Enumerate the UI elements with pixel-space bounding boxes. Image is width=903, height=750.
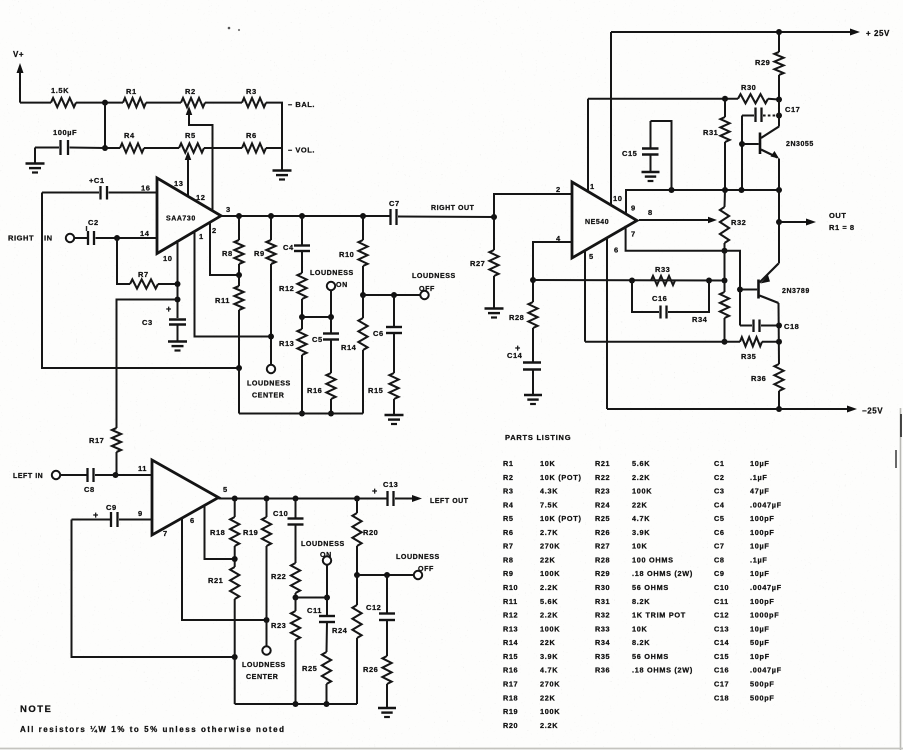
svg-text:R10: R10 — [339, 250, 354, 259]
capacitor C13 — [372, 480, 398, 506]
wire BAL row — [76, 102, 123, 104]
svg-text:R28: R28 — [509, 313, 524, 322]
svg-text:R34: R34 — [692, 315, 708, 324]
wire pin 10 vertical — [175, 240, 181, 318]
svg-text:.1µF: .1µF — [750, 473, 768, 482]
transistor Q1 2N3055 — [742, 127, 814, 159]
svg-text:C6: C6 — [714, 528, 725, 537]
svg-text:R15: R15 — [368, 386, 383, 395]
capacitor C7 — [389, 199, 494, 225]
svg-text:R18: R18 — [503, 693, 518, 702]
ground below BAL/VOL — [273, 171, 292, 180]
resistor R8 — [222, 216, 244, 278]
resistor R22 — [271, 525, 300, 601]
svg-text:R12: R12 — [279, 284, 294, 293]
svg-text:100µF: 100µF — [53, 128, 77, 137]
capacitor C2 — [74, 218, 157, 245]
svg-text:R23: R23 — [271, 621, 286, 630]
svg-text:2: 2 — [556, 185, 561, 194]
svg-text:1: 1 — [590, 182, 595, 191]
resistor R35 — [740, 337, 782, 361]
svg-text:R29: R29 — [755, 58, 770, 67]
svg-text:R11: R11 — [215, 296, 230, 305]
svg-text:10pF: 10pF — [750, 652, 770, 661]
pin label 13 — [174, 179, 183, 188]
svg-text:LOUDNESS: LOUDNESS — [247, 380, 291, 388]
svg-text:R19: R19 — [243, 528, 258, 537]
wire to NE540 pin 2 — [494, 194, 572, 217]
svg-text:CENTER: CENTER — [246, 673, 278, 681]
svg-text:270K: 270K — [540, 679, 560, 688]
wire VOL end — [266, 147, 282, 149]
svg-text:ON: ON — [336, 281, 348, 289]
svg-text:LOUDNESS: LOUDNESS — [310, 269, 354, 277]
svg-text:10K: 10K — [540, 459, 556, 468]
wire — [205, 102, 242, 104]
svg-text:R20: R20 — [503, 721, 518, 730]
wire C9 to R21 column — [72, 520, 238, 661]
pin label 6 (NE540) — [614, 246, 619, 255]
label -25V — [862, 407, 883, 416]
svg-text:10µF: 10µF — [750, 459, 770, 468]
wire pin 5 down — [584, 250, 586, 342]
svg-text:5: 5 — [223, 485, 228, 494]
svg-text:C10: C10 — [714, 583, 729, 592]
wire R5 wiper to pin 13 — [185, 151, 192, 196]
svg-text:100K: 100K — [540, 624, 560, 633]
label R1 = 8 — [829, 223, 855, 232]
parts listing table — [503, 433, 782, 730]
svg-text:5.6K: 5.6K — [540, 597, 558, 606]
svg-text:R3: R3 — [503, 487, 514, 496]
wire feedback from C1 down/right — [42, 193, 239, 369]
node LOUDNESS ON terminal (right) — [310, 269, 354, 320]
resistor R10 — [339, 216, 368, 298]
svg-text:6: 6 — [614, 246, 619, 255]
wire R32 junction to R34 — [724, 251, 726, 281]
pin label 2 (NE540) — [556, 185, 561, 194]
node junction out/R18 — [232, 496, 238, 502]
resistor R3 — [242, 87, 266, 107]
label RIGHT OUT — [431, 205, 475, 212]
svg-text:R9: R9 — [254, 249, 265, 258]
wire junction vertical — [102, 103, 108, 151]
svg-text:R23: R23 — [595, 487, 610, 496]
svg-text:100 OHMS: 100 OHMS — [632, 555, 674, 564]
pin label 16 — [141, 184, 150, 193]
node junction C7/R27 — [491, 214, 497, 220]
svg-text:56 OHMS: 56 OHMS — [632, 583, 669, 592]
node RIGHT IN terminal — [8, 234, 74, 243]
wire C3 node to R17 column — [117, 300, 178, 429]
node LEFT IN terminal — [13, 471, 60, 480]
wire pin 1 to R9 column — [195, 231, 272, 337]
svg-text:R22: R22 — [595, 473, 610, 482]
pin label 1 (NE540) — [590, 182, 595, 191]
pin label 11 — [138, 464, 147, 473]
svg-text:C2: C2 — [88, 218, 99, 227]
svg-text:R21: R21 — [208, 576, 223, 585]
svg-text:R7: R7 — [138, 270, 149, 279]
pin label 9 (NE540) — [631, 204, 636, 213]
svg-text:8: 8 — [648, 208, 653, 217]
svg-text:2.2K: 2.2K — [540, 583, 558, 592]
resistor R30 — [738, 83, 779, 103]
label OUT — [829, 211, 846, 220]
svg-text:500pF: 500pF — [750, 679, 775, 688]
svg-text:C15: C15 — [714, 652, 729, 661]
svg-text:R2: R2 — [503, 473, 514, 482]
node LOUDNESS OFF terminal (right) — [412, 272, 456, 299]
svg-text:R2: R2 — [185, 87, 196, 96]
wire pin 7 to R19 column — [182, 519, 270, 624]
capacitor C11 — [307, 598, 335, 623]
svg-text:10K: 10K — [632, 624, 648, 633]
wire bottom rail (right network) — [239, 413, 363, 415]
svg-text:All resistors ¼W 1% to 5% unle: All resistors ¼W 1% to 5% unless otherwi… — [20, 725, 286, 734]
svg-text:LOUDNESS: LOUDNESS — [242, 661, 286, 669]
svg-text:7: 7 — [163, 529, 168, 538]
svg-text:OUT: OUT — [829, 211, 846, 220]
svg-text:R26: R26 — [595, 528, 610, 537]
svg-text:8.2K: 8.2K — [632, 638, 650, 647]
svg-text:100K: 100K — [540, 707, 560, 716]
wire to loudness off (left) — [357, 572, 414, 578]
pin label 6 (left) — [190, 516, 195, 525]
svg-text:22K: 22K — [632, 500, 648, 509]
svg-text:4.7K: 4.7K — [632, 514, 650, 523]
resistor R13 — [279, 317, 307, 417]
node LOUDNESS CENTER terminal (left) — [242, 646, 286, 681]
pin label 5 (left) — [223, 485, 228, 494]
svg-text:R32: R32 — [595, 611, 610, 620]
svg-text:C16: C16 — [714, 666, 729, 675]
svg-text:R6: R6 — [503, 528, 514, 537]
resistor R15 — [368, 333, 399, 415]
wire C17 to base column — [739, 116, 745, 191]
svg-text:R1: R1 — [503, 459, 514, 468]
svg-text:R36: R36 — [751, 374, 766, 383]
wire to loudness off — [363, 292, 421, 298]
svg-text:7: 7 — [631, 230, 636, 239]
svg-text:R33: R33 — [655, 265, 670, 274]
svg-text:5.6K: 5.6K — [632, 459, 650, 468]
pin label 3 — [226, 205, 231, 214]
capacitor C5 — [312, 317, 339, 344]
label LEFT OUT — [430, 498, 469, 505]
svg-text:R20: R20 — [363, 528, 378, 537]
svg-text:.0047µF: .0047µF — [750, 500, 782, 509]
svg-text:LEFT OUT: LEFT OUT — [430, 498, 469, 505]
resistor R1 — [123, 87, 146, 107]
wire R22/R23 to loudness-on (left) — [296, 597, 328, 599]
svg-text:16: 16 — [141, 184, 150, 193]
svg-text:R27: R27 — [470, 259, 485, 268]
svg-text:4.7K: 4.7K — [540, 666, 558, 675]
svg-text:R17: R17 — [503, 679, 518, 688]
wire -25V rail — [607, 406, 857, 413]
resistor R23 — [271, 598, 300, 708]
capacitor C3 — [142, 304, 186, 341]
svg-text:R1 = 8: R1 = 8 — [829, 223, 855, 232]
resistor R11 — [215, 275, 244, 414]
resistor R19 — [243, 499, 271, 647]
svg-text:R26: R26 — [363, 665, 378, 674]
svg-text:R21: R21 — [595, 459, 610, 468]
node junction output/R10 — [360, 213, 366, 219]
svg-text:2.2K: 2.2K — [540, 611, 558, 620]
svg-text:22K: 22K — [540, 638, 556, 647]
svg-text:C11: C11 — [307, 606, 322, 615]
svg-text:−25V: −25V — [862, 407, 883, 416]
pin label 7 (left) — [163, 529, 168, 538]
resistor R17 — [89, 428, 121, 478]
node junction output/C4 — [299, 213, 305, 219]
svg-text:R29: R29 — [595, 569, 610, 578]
wire VOL row — [105, 147, 120, 149]
svg-text:10: 10 — [613, 194, 622, 203]
svg-text:10: 10 — [163, 254, 172, 263]
label VOL — [288, 146, 315, 155]
svg-text:8.2K: 8.2K — [632, 597, 650, 606]
wire pin 4 bus — [533, 278, 728, 284]
svg-text:56 OHMS: 56 OHMS — [632, 652, 669, 661]
svg-text:R11: R11 — [503, 597, 518, 606]
node junction output/R8 — [236, 213, 242, 219]
svg-text:R34: R34 — [595, 638, 611, 647]
resistor R36 — [751, 364, 784, 412]
wire pin 6 to R18/R21 junction — [205, 505, 235, 559]
pin label 5 (NE540) — [589, 252, 594, 261]
svg-text:2N3789: 2N3789 — [782, 288, 810, 295]
resistor R33 — [651, 265, 675, 285]
label +25V — [866, 29, 890, 38]
ground below C15 — [642, 172, 660, 181]
svg-text:R6: R6 — [246, 131, 257, 140]
svg-text:100pF: 100pF — [750, 514, 775, 523]
svg-text:100K: 100K — [540, 569, 560, 578]
svg-text:C15: C15 — [622, 149, 637, 158]
svg-text:10µF: 10µF — [750, 624, 770, 633]
node LOUDNESS OFF terminal (left) — [396, 553, 440, 579]
svg-text:C13: C13 — [714, 624, 729, 633]
svg-text:C11: C11 — [714, 597, 729, 606]
capacitor C6 — [373, 295, 402, 338]
resistor R32 trim pot — [720, 190, 747, 254]
svg-text:C7: C7 — [714, 542, 725, 551]
ground below C14 — [524, 395, 542, 404]
svg-text:C6: C6 — [373, 329, 384, 338]
svg-text:C12: C12 — [366, 603, 381, 612]
node junction out/C10 — [293, 496, 299, 502]
resistor R9 — [254, 216, 276, 365]
svg-text:+C1: +C1 — [89, 176, 105, 185]
resistor R12 — [279, 251, 307, 320]
svg-text:R22: R22 — [271, 572, 286, 581]
svg-text:R5: R5 — [503, 514, 514, 523]
svg-text:12: 12 — [196, 193, 205, 202]
wire — [144, 147, 179, 149]
svg-text:SAA730: SAA730 — [166, 216, 196, 223]
svg-text:C5: C5 — [714, 514, 725, 523]
svg-text:3.9K: 3.9K — [632, 528, 650, 537]
svg-text:R8: R8 — [503, 555, 514, 564]
svg-text:C9: C9 — [714, 569, 725, 578]
stray mark above C2 — [86, 226, 88, 231]
svg-text:C10: C10 — [273, 509, 288, 518]
resistor R2 (pot) — [181, 87, 205, 107]
svg-text:R31: R31 — [703, 128, 718, 137]
svg-text:V+: V+ — [13, 50, 24, 59]
svg-text:C9: C9 — [106, 503, 117, 512]
pin label 10 (NE540) — [613, 194, 622, 203]
svg-text:R28: R28 — [595, 555, 610, 564]
resistor R7 — [117, 238, 178, 289]
svg-text:C14: C14 — [714, 638, 730, 647]
svg-text:R17: R17 — [89, 436, 104, 445]
node junction 1.5K/R1 — [102, 100, 108, 106]
svg-text:2N3055: 2N3055 — [786, 141, 814, 148]
pin label 4 (NE540) — [556, 234, 561, 243]
wire pin 1 up — [587, 99, 589, 192]
svg-text:2: 2 — [212, 226, 217, 235]
wire OUT node to emitter Q2 — [778, 222, 780, 264]
svg-text:C8: C8 — [84, 485, 95, 494]
svg-text:C16: C16 — [652, 294, 667, 303]
svg-text:R14: R14 — [341, 343, 357, 352]
svg-text:14: 14 — [140, 229, 150, 238]
svg-text:4: 4 — [556, 234, 561, 243]
svg-text:R10: R10 — [503, 583, 518, 592]
svg-text:C1: C1 — [714, 459, 725, 468]
pin label 14 — [140, 229, 150, 238]
svg-text:9: 9 — [631, 204, 636, 213]
wire collector Q2 down — [778, 303, 781, 364]
svg-text:22K: 22K — [540, 693, 556, 702]
svg-text:R30: R30 — [741, 83, 756, 92]
svg-text:+: + — [166, 304, 172, 314]
svg-text:R1: R1 — [126, 87, 137, 96]
svg-text:3.9K: 3.9K — [540, 652, 558, 661]
wire R30 row — [588, 96, 738, 102]
svg-text:10µF: 10µF — [750, 542, 770, 551]
op-amp U1 SAA730 — [157, 178, 221, 254]
wire R35 row — [585, 341, 740, 343]
svg-text:4.3K: 4.3K — [540, 487, 558, 496]
wire NE540 pin 4 — [533, 242, 572, 302]
resistor R31 — [703, 99, 730, 190]
svg-text:C17: C17 — [785, 105, 800, 114]
ground below R26 — [378, 708, 396, 717]
svg-text:R4: R4 — [503, 500, 514, 509]
svg-text:10µF: 10µF — [750, 569, 770, 578]
svg-text:9: 9 — [138, 509, 143, 518]
svg-text:.1µF: .1µF — [750, 555, 768, 564]
svg-text:270K: 270K — [540, 542, 560, 551]
ground below R27 — [485, 309, 504, 318]
note text — [20, 704, 286, 734]
transistor Q2 2N3789 — [737, 264, 810, 304]
svg-text:+ 25V: + 25V — [866, 29, 890, 38]
pin label 12 — [196, 193, 205, 202]
wire collector to R29 node — [778, 100, 780, 127]
svg-text:RIGHT: RIGHT — [8, 234, 34, 243]
node V+ supply terminal — [13, 50, 24, 103]
pin label 7 (NE540) — [631, 230, 636, 239]
svg-text:C4: C4 — [714, 500, 725, 509]
svg-text:R13: R13 — [279, 339, 294, 348]
capacitor C8 — [60, 468, 152, 494]
resistor R4 — [120, 131, 144, 153]
svg-text:2.2K: 2.2K — [632, 473, 650, 482]
capacitor C16 — [632, 281, 709, 325]
wire pin 7 row — [626, 226, 740, 326]
wire emitter to OUT node — [776, 159, 782, 226]
page edge marks — [0, 408, 903, 750]
svg-text:R18: R18 — [210, 528, 225, 537]
capacitor C15 — [622, 121, 672, 190]
svg-text:100pF: 100pF — [750, 597, 775, 606]
resistor R26 — [363, 620, 392, 708]
pin label 8 (NE540) — [648, 208, 653, 217]
node junction out/R19 — [264, 496, 270, 502]
svg-text:C12: C12 — [714, 611, 729, 620]
svg-text:2.7K: 2.7K — [540, 528, 558, 537]
svg-text:RIGHT OUT: RIGHT OUT — [431, 205, 475, 212]
svg-text:R25: R25 — [595, 514, 610, 523]
svg-text:LOUDNESS: LOUDNESS — [301, 540, 345, 548]
svg-text:R8: R8 — [222, 249, 233, 258]
wire pin 2 to R8/R11 junction — [210, 222, 239, 276]
svg-text:R27: R27 — [595, 542, 610, 551]
ground below 100uF — [26, 148, 45, 173]
ground below C3 — [168, 342, 187, 351]
svg-text:C13: C13 — [383, 480, 398, 489]
svg-text:C18: C18 — [714, 693, 729, 702]
resistor 1.5K — [20, 86, 76, 107]
resistor R6 — [242, 131, 266, 153]
svg-text:.0047µF: .0047µF — [750, 583, 782, 592]
resistor R34 — [720, 281, 729, 345]
svg-text:R35: R35 — [741, 352, 756, 361]
svg-text:1K TRIM POT: 1K TRIM POT — [632, 611, 686, 620]
capacitor C18 — [740, 320, 799, 333]
svg-text:R24: R24 — [595, 500, 611, 509]
svg-text:R3: R3 — [246, 87, 257, 96]
svg-text:C3: C3 — [142, 318, 153, 327]
pin label 9 (left) — [138, 509, 143, 518]
svg-text:R32: R32 — [731, 218, 746, 227]
wire pin 8 wiper arrow — [639, 217, 717, 224]
resistor R21 — [208, 559, 239, 704]
svg-text:C4: C4 — [283, 243, 294, 252]
svg-text:R19: R19 — [503, 707, 518, 716]
ground below R15 — [385, 415, 404, 424]
svg-text:10K (POT): 10K (POT) — [540, 473, 582, 482]
svg-text:C8: C8 — [714, 555, 725, 564]
svg-text:R7: R7 — [503, 542, 514, 551]
svg-text:C3: C3 — [714, 487, 725, 496]
svg-text:– VOL.: – VOL. — [288, 146, 315, 155]
node LOUDNESS ON terminal (left) — [301, 540, 345, 601]
svg-text:R35: R35 — [595, 652, 610, 661]
resistor R14 — [341, 295, 368, 414]
capacitor C9 — [72, 503, 153, 527]
svg-text:R12: R12 — [503, 611, 518, 620]
resistor R20 — [352, 499, 378, 579]
wire LEFT OUT — [395, 495, 422, 502]
svg-text:R14: R14 — [503, 638, 519, 647]
